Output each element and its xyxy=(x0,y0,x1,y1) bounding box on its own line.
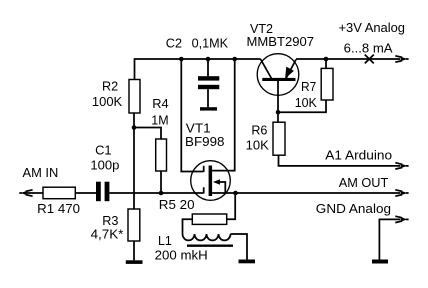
resistor R6 xyxy=(273,122,285,155)
resistor R3 xyxy=(128,209,140,241)
wire top rail left segment xyxy=(135,59,261,80)
resistor R7 xyxy=(321,68,333,100)
capacitor C2 xyxy=(198,59,219,107)
svg-text:100K: 100K xyxy=(92,94,123,109)
svg-text:R3: R3 xyxy=(102,213,118,228)
svg-text:4,7K*: 4,7K* xyxy=(91,227,124,242)
arrow A1 Arduino output xyxy=(395,163,408,169)
wire junction down to R3 xyxy=(133,128,135,210)
wire R6 bottom to A1 line xyxy=(279,155,401,166)
svg-text:A1 Arduino: A1 Arduino xyxy=(325,148,392,163)
svg-text:+3V Analog: +3V Analog xyxy=(339,20,406,35)
svg-text:AM OUT: AM OUT xyxy=(339,175,389,190)
collector lead of VT2 xyxy=(261,59,272,79)
wire AM IN arrow to R1 xyxy=(27,192,43,194)
ground under L1 xyxy=(239,260,256,264)
svg-text:1M: 1M xyxy=(151,112,168,127)
inductor L1 coil xyxy=(183,234,231,240)
inductor L1 core line xyxy=(187,244,233,246)
base bar of VT2 xyxy=(262,78,295,81)
node G2 rail junction xyxy=(179,57,184,62)
svg-text:R6: R6 xyxy=(251,123,267,138)
wire R1 to C1 xyxy=(75,192,96,194)
svg-text:10K: 10K xyxy=(295,95,318,110)
svg-text:C1: C1 xyxy=(95,143,112,158)
svg-text:6...8 mA: 6...8 mA xyxy=(344,40,393,55)
svg-text:200 mkH: 200 mkH xyxy=(155,248,208,263)
svg-text:R7: R7 xyxy=(301,79,316,94)
wire source junction down to R5 xyxy=(227,193,236,219)
resistor R2 xyxy=(129,80,140,114)
svg-text:R1 470: R1 470 xyxy=(37,201,80,216)
wire R2 bottom to junction xyxy=(133,113,135,128)
node C2 top junction xyxy=(206,57,211,62)
svg-text:100p: 100p xyxy=(90,157,119,172)
X break mark on +3V line xyxy=(365,55,374,64)
svg-text:L1: L1 xyxy=(158,233,172,248)
wire R7 top to rail xyxy=(325,59,327,68)
wire drain lead of VT1 to rail xyxy=(212,59,235,171)
arrow +3V output xyxy=(395,56,408,62)
wire GND Analog stub xyxy=(379,219,400,259)
svg-text:GND Analog: GND Analog xyxy=(316,201,391,216)
wire base lead down to junction xyxy=(277,81,279,112)
wire L1 right to ground xyxy=(231,234,248,260)
node source R5 junction xyxy=(233,191,238,196)
wire top rail right segment xyxy=(296,58,401,60)
wire R4 bottom to gate line xyxy=(160,171,162,193)
svg-text:C2: C2 xyxy=(166,36,182,51)
ground under GND Analog xyxy=(372,260,388,264)
node R2/R3/R4 junction xyxy=(132,125,137,130)
wire R5 left to L1 xyxy=(183,219,193,234)
svg-text:MMBT2907: MMBT2907 xyxy=(247,34,315,49)
node base junction xyxy=(276,110,281,115)
svg-text:R2: R2 xyxy=(102,79,118,94)
arrow AM IN input xyxy=(19,190,32,196)
node R7 rail junction xyxy=(324,57,329,62)
emitter arrow of VT2 xyxy=(286,67,294,77)
wire G2 from rail to upper gate xyxy=(181,59,203,172)
svg-text:10K: 10K xyxy=(246,137,270,152)
svg-text:BF998: BF998 xyxy=(185,134,225,149)
svg-text:AM IN: AM IN xyxy=(23,165,59,180)
svg-text:R4: R4 xyxy=(152,96,168,111)
resistor R4 xyxy=(156,139,167,171)
node drain rail junction xyxy=(232,57,237,62)
wire base junction to R6 top xyxy=(277,112,279,122)
ground under R3 xyxy=(126,260,143,264)
ground under C2 xyxy=(200,107,217,110)
resistor R1 xyxy=(43,187,75,199)
node R4 gate junction xyxy=(159,191,164,196)
arrow AM OUT output xyxy=(395,190,408,196)
gate 2 electrode xyxy=(203,166,205,172)
transistor VT2 body circle xyxy=(257,54,299,96)
gate 1 electrode xyxy=(203,187,205,193)
wire R3 bottom to ground xyxy=(133,241,135,260)
wire junction to R4 top xyxy=(134,128,161,140)
substrate arrow of VT1 xyxy=(213,179,225,192)
emitter lead of VT2 xyxy=(286,60,296,79)
wire source lead / AM OUT line xyxy=(212,192,400,194)
channel bar of VT1 xyxy=(209,166,213,197)
svg-text:0,1MK: 0,1MK xyxy=(192,36,229,51)
arrow GND Analog output xyxy=(395,216,408,222)
resistor R5 xyxy=(192,214,226,224)
wire base junction to R7 bottom xyxy=(278,100,326,112)
wire C1 to gate 1 of VT1 xyxy=(109,192,203,194)
capacitor C1 xyxy=(96,182,109,202)
svg-text:R5 20: R5 20 xyxy=(159,197,195,212)
transistor VT1 body circle xyxy=(191,161,231,201)
svg-text:VT1: VT1 xyxy=(186,120,211,135)
